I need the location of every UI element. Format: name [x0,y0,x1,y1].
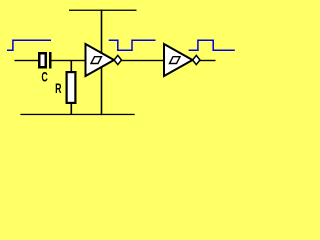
inverting output diamond gate 2 [193,55,200,64]
op-amp U2 Schmitt inverter triangle [164,44,193,76]
op-amp U1 Schmitt inverter triangle [86,44,115,76]
wire junction drop to resistor [71,60,73,72]
node waveform after gate 2 (output pulse) [189,40,235,50]
node waveform after gate 1 (inverted pulse) [109,40,156,50]
capacitor C right plate [49,52,52,69]
wire capacitor to gate 1 input [51,60,86,61]
hysteresis symbol gate 2 [170,57,181,64]
wire gate 1 output to gate 2 input [122,60,165,61]
wire vertical from top rail to bottom rail [101,10,103,116]
wire gate 2 output [200,60,216,61]
capacitor C left plate [39,53,46,67]
svg-text:R: R [55,80,61,96]
wire top rail [69,10,137,11]
wire input to capacitor [15,60,40,61]
svg-text:C: C [41,68,47,84]
node input waveform (blue step) [7,40,51,50]
wire bottom rail (ground) [20,114,134,115]
inverting output diamond gate 1 [114,55,121,64]
hysteresis symbol gate 1 [91,57,102,64]
wire resistor to bottom rail [71,104,73,115]
resistor R body [67,72,76,103]
